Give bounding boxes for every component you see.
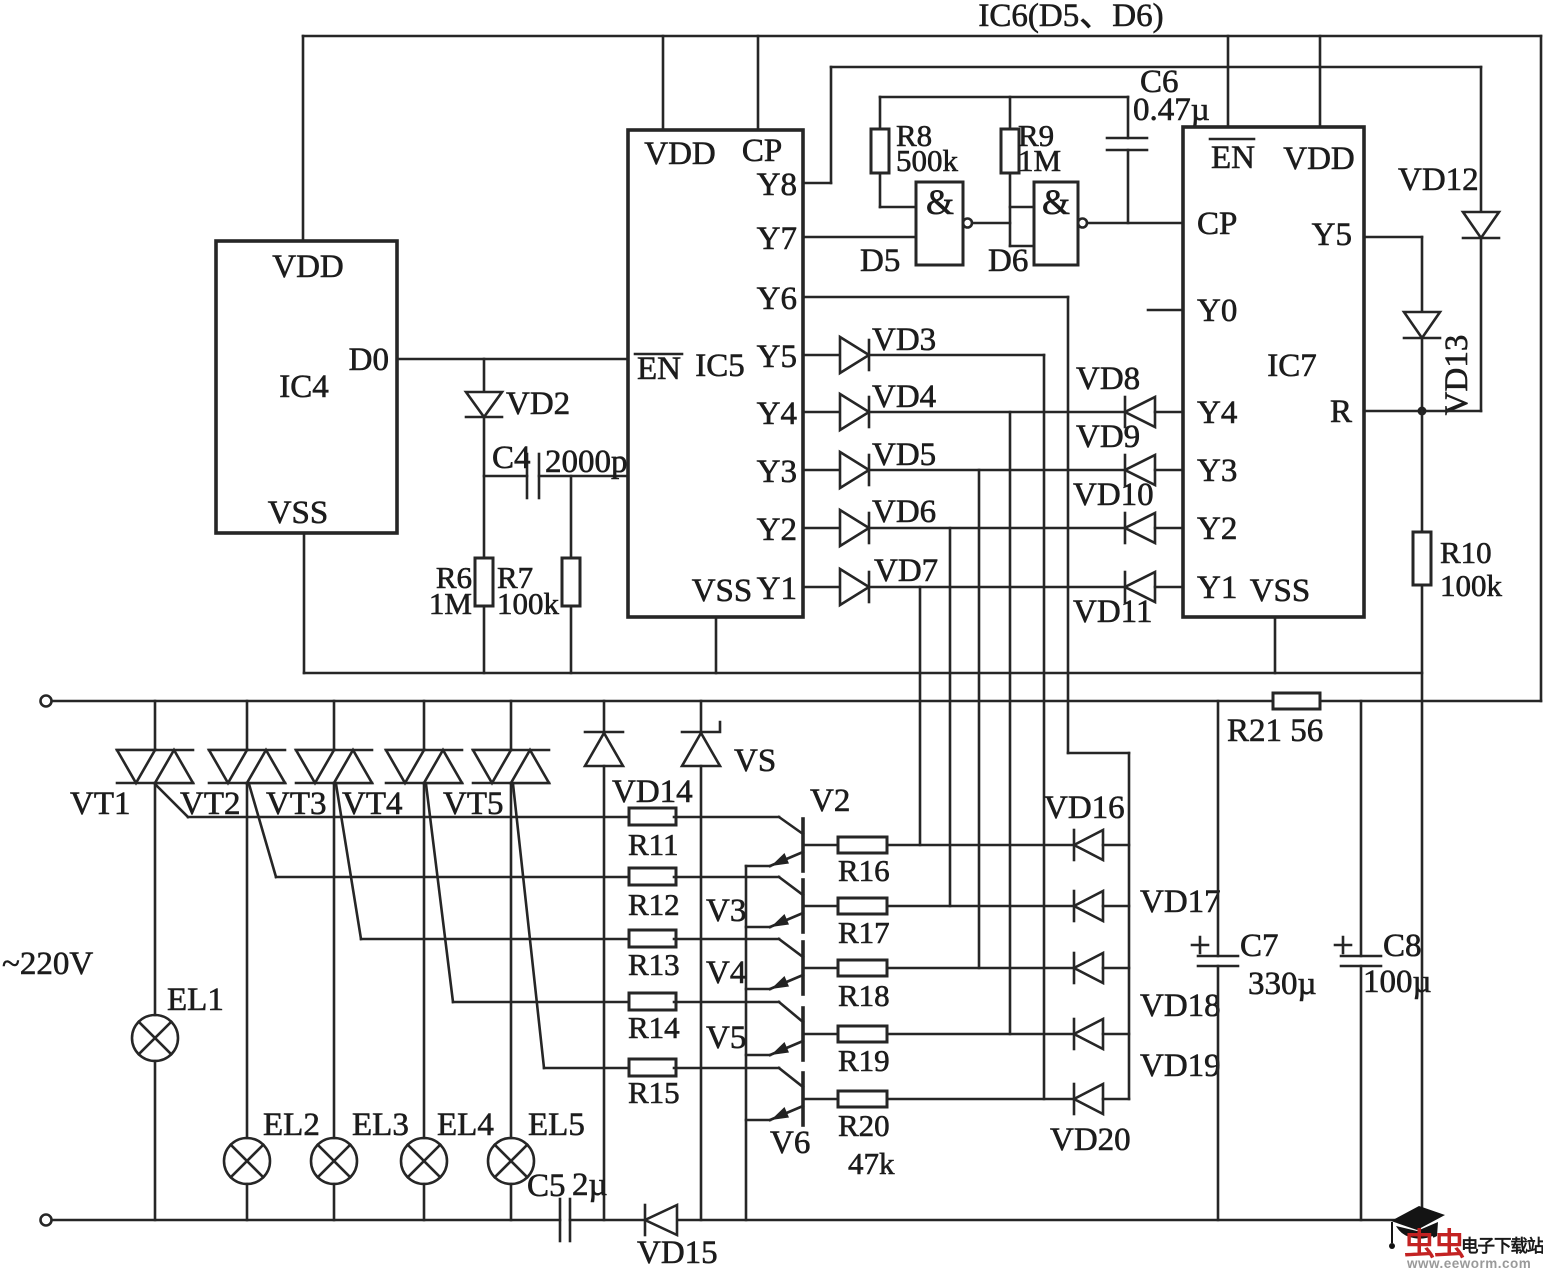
svg-text:D5: D5 <box>860 243 900 279</box>
svg-text:V5: V5 <box>706 1020 746 1056</box>
resistor R7 100k <box>497 476 580 673</box>
wire D0 to EN <box>397 358 628 361</box>
resistor R6 1M <box>429 558 493 673</box>
wire R11 row from VT1 gate <box>188 816 630 819</box>
svg-text:&: & <box>1042 182 1070 222</box>
wire R14 row from VT4 gate <box>453 1001 630 1004</box>
lamp EL5 <box>488 783 585 1220</box>
diode VD2 <box>466 359 570 558</box>
wire Y4 row with diode VD4 and diode VD8 <box>803 361 1183 430</box>
wire AC live rail <box>41 696 1542 707</box>
svg-text:Y2: Y2 <box>757 512 797 548</box>
svg-text:C8: C8 <box>1383 928 1422 964</box>
triac VT4 <box>342 701 462 1002</box>
IC IC7 <box>1183 127 1364 617</box>
diode VD14 <box>585 701 693 1220</box>
diode VD12 <box>1398 67 1499 411</box>
svg-text:电子下载站: 电子下载站 <box>1461 1236 1543 1256</box>
svg-text:Y5: Y5 <box>757 339 797 375</box>
svg-text:Y7: Y7 <box>757 221 797 257</box>
diode VD15 <box>637 1205 718 1269</box>
svg-text:1M: 1M <box>429 586 472 621</box>
wire Y3 row with diode VD5 and diode VD9 <box>803 419 1183 488</box>
wire R13 row from VT3 gate <box>361 938 630 941</box>
svg-text:330µ: 330µ <box>1248 966 1317 1002</box>
diode VD13 <box>1404 312 1475 415</box>
wire R row of IC7 <box>1364 410 1481 413</box>
diode VD19 <box>1074 1019 1221 1084</box>
svg-text:IC7: IC7 <box>1267 348 1317 384</box>
svg-text:EL4: EL4 <box>437 1107 494 1143</box>
svg-text:www.eeworm.com: www.eeworm.com <box>1406 1256 1531 1269</box>
resistor R18 <box>803 960 1074 1013</box>
wire R12 row from VT2 gate <box>276 876 630 879</box>
svg-text:IC5: IC5 <box>695 348 745 384</box>
wire Y3 column to V4 base <box>978 470 981 968</box>
wire Y1 row with diode VD7 and diode VD11 <box>803 553 1183 630</box>
svg-text:VD15: VD15 <box>637 1235 718 1269</box>
capacitor C7 330µ <box>1192 701 1317 1220</box>
svg-text:VD18: VD18 <box>1140 988 1221 1024</box>
wire Y2 column to V3 base <box>949 528 952 906</box>
svg-text:VD3: VD3 <box>872 322 936 358</box>
transistor V4 <box>706 939 803 994</box>
triac VT1 <box>70 701 193 822</box>
svg-text:C7: C7 <box>1240 928 1279 964</box>
resistor R12 <box>628 868 779 922</box>
resistor R21 56 <box>1227 693 1323 749</box>
svg-text:R10: R10 <box>1440 535 1492 570</box>
svg-text:R21 56: R21 56 <box>1227 713 1323 749</box>
svg-text:Y3: Y3 <box>1197 453 1237 489</box>
NAND gate D5 <box>860 182 1010 279</box>
wire VD16 anode bus <box>1128 753 1131 1099</box>
capacitor C5 2µ <box>527 1167 608 1241</box>
svg-text:Y1: Y1 <box>1197 570 1237 606</box>
svg-text:EL5: EL5 <box>528 1107 585 1143</box>
svg-text:V6: V6 <box>770 1125 810 1161</box>
transistor V6 <box>746 1068 810 1161</box>
resistor R17 <box>803 898 1074 950</box>
triac VT5 <box>443 701 549 1068</box>
svg-text:500k: 500k <box>896 143 959 178</box>
diode VD20 <box>1050 1084 1131 1158</box>
resistor R10 100k <box>1413 411 1503 1220</box>
svg-text:VD9: VD9 <box>1076 419 1140 455</box>
svg-text:2000p: 2000p <box>545 444 628 480</box>
svg-text:D6: D6 <box>988 243 1028 279</box>
wire Y0 stub <box>1148 309 1183 312</box>
svg-text:V4: V4 <box>706 955 746 991</box>
svg-text:VD7: VD7 <box>874 553 938 589</box>
triac VT3 <box>266 701 372 939</box>
svg-text:VD13: VD13 <box>1439 335 1475 416</box>
svg-text:IC4: IC4 <box>279 369 329 405</box>
diode VD18 <box>1074 953 1221 1024</box>
svg-text:Y4: Y4 <box>757 396 797 432</box>
resistor R20 47k <box>803 1091 1074 1181</box>
lamp EL4 <box>401 783 494 1220</box>
wire Y6 to VD16 bus <box>803 297 1129 753</box>
svg-text:V2: V2 <box>810 783 850 819</box>
svg-text:100k: 100k <box>1440 568 1503 603</box>
wire Y5 row with diode VD3 <box>803 322 1044 373</box>
svg-text:0.47µ: 0.47µ <box>1133 92 1210 128</box>
svg-text:Y3: Y3 <box>757 454 797 490</box>
resistor R14 <box>628 993 779 1045</box>
watermark logo <box>1389 1206 1543 1269</box>
svg-text:Y8: Y8 <box>757 167 797 203</box>
svg-text:47k: 47k <box>848 1146 895 1181</box>
svg-text:Y0: Y0 <box>1197 293 1237 329</box>
wire Y8 to VD12 <box>803 67 1481 183</box>
transistor V3 <box>706 877 803 932</box>
diode VD17 <box>1074 884 1221 921</box>
svg-text:2µ: 2µ <box>572 1167 608 1203</box>
svg-text:100µ: 100µ <box>1363 964 1432 1000</box>
svg-text:EL3: EL3 <box>352 1107 409 1143</box>
diode VD16 <box>1044 790 1129 860</box>
wire Y4 column to V5 base <box>1009 412 1012 1034</box>
resistor R15 <box>628 1059 779 1110</box>
svg-text:EL2: EL2 <box>263 1107 320 1143</box>
svg-text:CP: CP <box>1197 206 1237 242</box>
triac VT2 <box>180 701 285 877</box>
zener diode VS <box>682 701 776 1220</box>
svg-text:VSS: VSS <box>268 495 329 531</box>
lamp EL3 <box>311 783 409 1220</box>
wire VDD top bus <box>303 36 1541 701</box>
svg-text:Y4: Y4 <box>1197 395 1237 431</box>
wire common emitter chain <box>745 866 748 1220</box>
wire oscillator feedback <box>880 96 1128 99</box>
svg-text:VD11: VD11 <box>1073 594 1152 630</box>
svg-text:R20: R20 <box>838 1108 890 1143</box>
svg-text:VD19: VD19 <box>1140 1048 1221 1084</box>
transistor V2 <box>746 783 850 871</box>
node R junction <box>1418 407 1427 416</box>
NAND gate D6 <box>988 182 1183 279</box>
transistor V5 <box>706 1002 803 1060</box>
svg-text:R14: R14 <box>628 1010 680 1045</box>
svg-text:D0: D0 <box>349 342 389 378</box>
svg-text:Y6: Y6 <box>757 281 797 317</box>
svg-text:R15: R15 <box>628 1075 680 1110</box>
svg-text:1M: 1M <box>1018 143 1061 178</box>
capacitor C8 100µ <box>1335 701 1432 1220</box>
svg-text:EL1: EL1 <box>167 982 224 1018</box>
svg-text:100k: 100k <box>497 586 560 621</box>
wire Y7 to D5 <box>803 236 916 239</box>
svg-text:VD17: VD17 <box>1140 884 1221 920</box>
resistor R9 1M <box>1001 97 1061 246</box>
resistor R13 <box>628 930 779 982</box>
svg-text:R12: R12 <box>628 887 680 922</box>
svg-text:Y1: Y1 <box>757 571 797 607</box>
svg-text:VD6: VD6 <box>872 494 936 530</box>
capacitor C4 2000p <box>484 440 628 498</box>
svg-text:R16: R16 <box>838 853 890 888</box>
wire R15 row from VT5 gate <box>544 1067 630 1070</box>
IC IC5 <box>628 130 803 617</box>
svg-text:VD8: VD8 <box>1076 361 1140 397</box>
svg-text:VD14: VD14 <box>612 774 693 810</box>
svg-text:Y5: Y5 <box>1312 217 1352 253</box>
svg-text:R17: R17 <box>838 915 890 950</box>
svg-text:VSS: VSS <box>1250 573 1311 609</box>
svg-text:V3: V3 <box>706 893 746 929</box>
svg-text:EN: EN <box>637 351 681 387</box>
lamp EL2 <box>224 783 320 1220</box>
wire VSS bus <box>304 533 1422 673</box>
svg-text:VS: VS <box>734 743 776 779</box>
svg-text:EN: EN <box>1211 140 1255 176</box>
svg-text:Y2: Y2 <box>1197 511 1237 547</box>
svg-text:R11: R11 <box>628 827 679 862</box>
svg-text:~220V: ~220V <box>2 946 93 982</box>
lamp EL1 <box>132 783 224 1220</box>
svg-text:VSS: VSS <box>692 573 753 609</box>
svg-text:VD20: VD20 <box>1050 1122 1131 1158</box>
svg-text:VDD: VDD <box>272 249 344 285</box>
svg-text:VD4: VD4 <box>872 379 936 415</box>
wire Y1 column to V2 base <box>919 587 922 845</box>
svg-text:VD10: VD10 <box>1073 477 1154 513</box>
capacitor C6 0.47µ <box>1107 64 1210 223</box>
wire AC neutral rail <box>41 1215 1423 1226</box>
svg-text:VD12: VD12 <box>1398 162 1479 198</box>
resistor R19 <box>803 1026 1074 1078</box>
svg-text:R18: R18 <box>838 978 890 1013</box>
wire Y2 row with diode VD6 and diode VD10 <box>803 477 1183 546</box>
resistor R8 500k <box>871 97 959 207</box>
svg-text:VDD: VDD <box>644 136 716 172</box>
svg-text:VD2: VD2 <box>506 386 570 422</box>
wire Y5 column to V6 base <box>1043 355 1046 1099</box>
IC IC4 <box>216 241 397 533</box>
svg-text:C4: C4 <box>492 440 531 476</box>
svg-text:R19: R19 <box>838 1043 890 1078</box>
svg-text:VD16: VD16 <box>1044 790 1125 826</box>
svg-text:R: R <box>1330 394 1352 430</box>
wire Y5 of IC7 <box>1364 237 1422 312</box>
svg-text:CP: CP <box>742 133 782 169</box>
svg-text:&: & <box>926 182 954 222</box>
svg-text:C5: C5 <box>527 1168 566 1204</box>
svg-text:R13: R13 <box>628 947 680 982</box>
svg-text:IC6(D5、D6): IC6(D5、D6) <box>978 0 1163 34</box>
svg-text:VDD: VDD <box>1283 141 1355 177</box>
resistor R11 <box>628 808 779 862</box>
svg-text:VT1: VT1 <box>70 786 131 822</box>
svg-text:VD5: VD5 <box>872 437 936 473</box>
resistor R16 <box>803 837 1074 888</box>
